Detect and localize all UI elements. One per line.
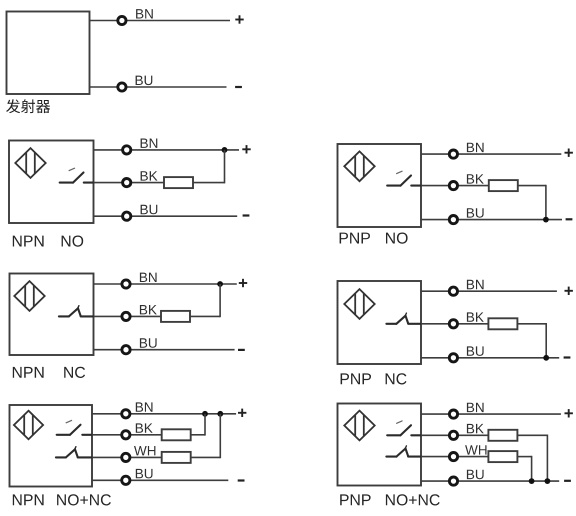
- minus terminal (transmitter): [235, 86, 242, 88]
- terminal BN NPN NO+NC: [122, 410, 130, 418]
- minus terminal NPN NO: [243, 214, 250, 216]
- sensor box NPN NO+NC: [10, 405, 93, 487]
- label BU (transmitter): [136, 76, 153, 86]
- load resistor on BK PNP NC: [488, 318, 517, 329]
- sensor box PNP NO+NC: [338, 404, 422, 486]
- load resistor on BK NPN NO: [164, 177, 193, 188]
- label BU PNP NC: [467, 346, 484, 356]
- load resistor on BK PNP NO: [489, 180, 518, 191]
- NO contact PNP NO+NC: [387, 421, 421, 435]
- NO contact PNP NO: [387, 171, 421, 185]
- caption PNP NO: [340, 233, 370, 244]
- plus terminal (transmitter): [235, 15, 243, 23]
- wire WH to plus bus NPN NO+NC: [191, 414, 221, 458]
- terminal BU NPN NC: [122, 346, 130, 354]
- proximity sensor symbol NPN NO: [15, 148, 45, 178]
- minus terminal PNP NO+NC: [564, 480, 571, 482]
- terminal BU NPN NO+NC: [122, 476, 130, 484]
- terminal BK PNP NO+NC: [449, 431, 457, 439]
- plus terminal NPN NC: [239, 279, 247, 287]
- label BN PNP NO+NC: [467, 403, 484, 412]
- label BN NPN NO: [141, 139, 158, 148]
- wire BK PNP NO+NC: [421, 434, 488, 436]
- sensor box PNP NC: [338, 281, 422, 364]
- minus terminal PNP NO: [566, 218, 573, 220]
- junction dot on BU (WH link) PNP NO+NC: [529, 478, 535, 484]
- wire BK NPN NO+NC: [92, 434, 162, 436]
- label BN PNP NC: [467, 280, 484, 289]
- terminal BN PNP NO: [449, 150, 457, 158]
- label BU NPN NC: [140, 338, 157, 348]
- label BK NPN NC: [140, 305, 157, 314]
- plus terminal PNP NC: [565, 287, 573, 295]
- wire WH PNP NO+NC: [421, 456, 488, 458]
- proximity sensor symbol PNP NO: [344, 151, 374, 181]
- terminal BU PNP NC: [449, 354, 457, 362]
- caption NPN NC: [13, 367, 44, 378]
- NC contact PNP NC: [386, 313, 421, 324]
- wire BK to plus bus NPN NC: [190, 284, 220, 317]
- terminal BN PNP NC: [449, 287, 457, 295]
- proximity sensor symbol NPN NC: [14, 281, 44, 311]
- wire BN PNP NO+NC: [421, 413, 561, 415]
- label BN (transmitter): [136, 9, 153, 18]
- caption PNP NO+NC: [340, 494, 370, 505]
- label BK PNP NC: [467, 312, 484, 321]
- wire BU NPN NO+NC: [92, 479, 228, 481]
- plus terminal NPN NO+NC: [238, 409, 246, 417]
- load resistor on WH PNP NO+NC: [488, 451, 517, 462]
- label BU NPN NO: [141, 205, 158, 215]
- terminal BK NPN NC: [122, 312, 130, 320]
- wire BU (transmitter): [90, 86, 227, 88]
- label BU PNP NO: [467, 208, 484, 218]
- wire BU PNP NO+NC: [421, 480, 559, 482]
- load resistor on WH NPN NO+NC: [162, 452, 191, 463]
- label BN NPN NO+NC: [136, 402, 153, 411]
- label BK NPN NO+NC: [136, 423, 153, 432]
- wire BK NPN NO: [94, 182, 165, 184]
- plus terminal PNP NO+NC: [565, 409, 573, 417]
- wire BN NPN NC: [94, 283, 237, 285]
- terminal BK NPN NO: [123, 179, 131, 187]
- junction dot on BN NPN NC: [217, 281, 223, 287]
- NC contact NPN NC: [59, 306, 94, 317]
- junction dot on BU PNP NC: [543, 355, 549, 361]
- load resistor on BK NPN NO+NC: [162, 429, 191, 440]
- terminal BU PNP NO+NC: [449, 477, 457, 485]
- wire BK NPN NC: [94, 315, 162, 317]
- wire WH to minus bus PNP NO+NC: [517, 456, 531, 481]
- wire BK PNP NC: [421, 323, 488, 325]
- minus terminal PNP NC: [564, 356, 571, 358]
- caption PNP NC: [341, 373, 371, 384]
- wire BK to plus bus NPN NO+NC: [191, 414, 205, 436]
- terminal BK PNP NO: [449, 182, 457, 190]
- junction dot on BN NPN NO: [222, 147, 228, 153]
- wire BN PNP NO: [421, 153, 561, 155]
- wire BK to minus bus PNP NO: [518, 185, 546, 220]
- junction dot on BU (BK link) PNP NO+NC: [545, 478, 551, 484]
- wire BK to minus bus PNP NO+NC: [517, 435, 547, 482]
- caption 发射器 (transmitter label): [6, 99, 50, 113]
- wire BN NPN NO: [94, 149, 240, 151]
- proximity sensor symbol PNP NC: [344, 289, 374, 319]
- NC contact PNP NO+NC: [386, 446, 421, 457]
- terminal BU (transmitter): [118, 83, 126, 91]
- NO contact NPN NO: [60, 168, 94, 182]
- terminal BN PNP NO+NC: [449, 410, 457, 418]
- terminal WH NPN NO+NC: [122, 453, 130, 461]
- sensor box NPN NO: [9, 141, 94, 224]
- junction dot on BU PNP NO: [543, 217, 549, 223]
- label BU NPN NO+NC: [136, 469, 153, 479]
- minus terminal NPN NO+NC: [238, 479, 245, 481]
- wire WH NPN NO+NC: [92, 456, 162, 458]
- load resistor on BK NPN NC: [161, 311, 190, 322]
- caption NPN NO: [13, 236, 44, 247]
- proximity sensor symbol NPN NO+NC: [14, 411, 43, 440]
- terminal WH PNP NO+NC: [449, 453, 457, 461]
- terminal BN (transmitter): [118, 16, 126, 24]
- terminal BK PNP NC: [449, 320, 457, 328]
- caption NPN NO+NC: [13, 494, 44, 505]
- terminal BU NPN NO: [123, 212, 131, 220]
- sensor box PNP NO: [338, 144, 422, 227]
- label BN PNP NO: [467, 143, 484, 152]
- wire BK to plus bus NPN NO: [193, 150, 225, 184]
- wire BN PNP NC: [421, 290, 557, 292]
- plus terminal PNP NO: [565, 149, 573, 157]
- NO contact NPN NO+NC: [57, 420, 92, 434]
- wire BN NPN NO+NC: [92, 413, 236, 415]
- terminal BK NPN NO+NC: [122, 431, 130, 439]
- wire BU PNP NC: [421, 357, 559, 359]
- label WH PNP NO+NC: [465, 445, 486, 454]
- plus terminal NPN NO: [242, 145, 250, 153]
- wire BK PNP NO: [421, 185, 489, 187]
- wire BU PNP NO: [421, 219, 562, 221]
- minus terminal NPN NC: [238, 349, 245, 351]
- transmitter box: [7, 12, 90, 95]
- sensor box NPN NC: [10, 274, 94, 356]
- wire BN (transmitter): [90, 20, 231, 22]
- terminal BN NPN NC: [122, 280, 130, 288]
- load resistor on BK PNP NO+NC: [488, 430, 517, 441]
- wire BU NPN NO: [94, 215, 238, 217]
- label BN NPN NC: [140, 273, 157, 282]
- junction dot on BN (BK link) NPN NO+NC: [202, 411, 208, 417]
- label BK PNP NO: [467, 174, 484, 183]
- label WH NPN NO+NC: [134, 446, 155, 455]
- label BU PNP NO+NC: [467, 470, 484, 480]
- wire BK to minus bus PNP NC: [517, 323, 546, 358]
- terminal BN NPN NO: [123, 146, 131, 154]
- junction dot on BN (WH link) NPN NO+NC: [217, 411, 223, 417]
- label BK NPN NO: [141, 171, 158, 180]
- proximity sensor symbol PNP NO+NC: [344, 411, 374, 441]
- wire BU NPN NC: [94, 349, 235, 351]
- label BK PNP NO+NC: [467, 424, 484, 433]
- NC contact NPN NO+NC: [56, 447, 92, 458]
- terminal BU PNP NO: [449, 216, 457, 224]
